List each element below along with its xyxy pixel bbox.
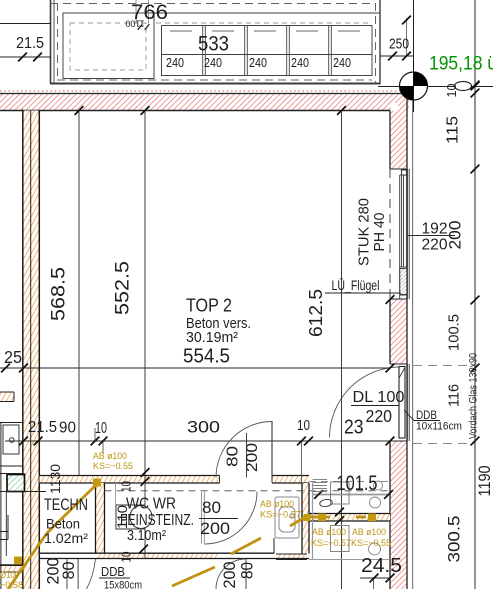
pipe niche diagonal xyxy=(231,538,261,554)
wire red dotted insulation line xyxy=(0,90,407,92)
svg-text:1130: 1130 xyxy=(48,464,63,494)
svg-text:533: 533 xyxy=(198,33,229,56)
wire leader DDB xyxy=(404,410,440,421)
svg-text:195,18 ü: 195,18 ü xyxy=(429,54,493,75)
svg-text:240: 240 xyxy=(291,55,309,70)
svg-text:AB ø100: AB ø100 xyxy=(352,527,386,538)
window STUK 192/220 in right wall xyxy=(390,169,409,299)
wire left edge double line xyxy=(50,0,52,84)
wall C horizontal bathroom top xyxy=(40,476,310,484)
dim line 24.5 xyxy=(360,577,390,579)
dim line 568.5 vertical xyxy=(78,111,80,476)
wire dashed parapet line across band xyxy=(156,22,372,24)
svg-text:101.5: 101.5 xyxy=(337,472,378,495)
wire bottom edge xyxy=(50,83,381,85)
wire gray line below wallE right xyxy=(309,559,390,561)
svg-text:552.5: 552.5 xyxy=(113,261,134,315)
svg-text:3.10m²: 3.10m² xyxy=(127,528,166,544)
dim line right column xyxy=(474,0,476,589)
svg-text:FEINSTEINZ.: FEINSTEINZ. xyxy=(120,512,194,529)
wire dim boundary lines 766 xyxy=(135,0,137,24)
svg-text:10: 10 xyxy=(444,84,459,98)
dim line 21.5 xyxy=(0,56,51,58)
dim line 192/220 leader xyxy=(407,235,455,237)
dim line 250 xyxy=(380,55,414,57)
svg-text:80: 80 xyxy=(225,446,242,467)
wall stub B2 bottom left xyxy=(0,566,23,573)
dim line 101.5 xyxy=(312,494,390,496)
svg-text:10: 10 xyxy=(297,418,310,434)
dim ticks xyxy=(75,106,84,115)
wire cell top ticks xyxy=(170,30,360,32)
svg-text:TOP 2: TOP 2 xyxy=(186,295,232,316)
svg-text:100.5: 100.5 xyxy=(446,314,463,351)
wire dashed DDB projection lines xyxy=(413,365,471,367)
svg-text:300: 300 xyxy=(187,418,220,437)
svg-text:10: 10 xyxy=(95,420,107,437)
svg-text:21.5: 21.5 xyxy=(28,419,57,436)
wire bottom-middle door lines xyxy=(245,559,247,589)
door DL100 leaf xyxy=(399,367,405,439)
wall exterior top band xyxy=(0,94,409,111)
svg-text:WC WR: WC WR xyxy=(126,496,176,513)
wire line y23.5 xyxy=(0,23,51,25)
svg-text:25: 25 xyxy=(4,347,22,367)
dim chain horizontal y441 xyxy=(5,440,390,442)
svg-text:90: 90 xyxy=(59,420,76,437)
svg-text:TECHN: TECHN xyxy=(44,496,88,514)
pipe basin to wall xyxy=(290,517,330,526)
svg-text:PH 40: PH 40 xyxy=(371,213,388,252)
wire dashed partition y491 xyxy=(105,490,391,492)
pipe long diagonal left xyxy=(8,484,97,589)
wire reference line right xyxy=(413,0,415,87)
svg-text:300.5: 300.5 xyxy=(445,516,464,563)
svg-text:200: 200 xyxy=(244,443,261,472)
node shaft box lower xyxy=(331,526,350,552)
door bottom-middle arc xyxy=(216,559,246,589)
door DL100 + DDB window in right wall xyxy=(330,364,441,441)
svg-text:10: 10 xyxy=(120,481,134,492)
svg-text:KS=−0.57: KS=−0.57 xyxy=(260,510,301,521)
wire dashed opening 101.5 xyxy=(309,481,389,483)
node pipe circles xyxy=(374,481,383,490)
svg-text:240: 240 xyxy=(204,55,222,70)
svg-text:10: 10 xyxy=(120,551,134,562)
wall E horizontal bathroom bottom xyxy=(40,553,310,559)
wire right edge xyxy=(379,0,381,84)
pipe WC bottom xyxy=(172,567,215,586)
door DL100 swing arc xyxy=(330,367,401,438)
svg-text:240: 240 xyxy=(166,55,184,70)
svg-text:220: 220 xyxy=(422,237,448,254)
node shaft box upper xyxy=(331,482,350,504)
door TOP2->bath arc xyxy=(216,422,272,478)
svg-text:AB ø100: AB ø100 xyxy=(260,499,294,510)
svg-text:200: 200 xyxy=(221,562,239,589)
node level ellipse xyxy=(455,82,472,91)
wire crosshair horizontal xyxy=(378,86,493,88)
svg-text:1190: 1190 xyxy=(475,466,493,497)
node green shaft square xyxy=(7,475,25,492)
svg-text:AB ø100: AB ø100 xyxy=(312,527,346,538)
svg-text:1.02m²: 1.02m² xyxy=(44,530,88,546)
node washbasin left xyxy=(3,425,19,454)
svg-text:80: 80 xyxy=(60,562,78,580)
wire 80/200 fraction bar rotated xyxy=(246,433,248,478)
svg-text:21.5: 21.5 xyxy=(16,35,44,52)
wall exterior right: upper block xyxy=(390,87,413,589)
wire niche lines xyxy=(0,422,23,424)
pipe dash in wallF xyxy=(356,516,366,519)
wall D vertical right of niche xyxy=(302,483,309,554)
svg-text:1100: 1100 xyxy=(125,19,144,29)
node toilet WC xyxy=(116,505,145,529)
node window band xyxy=(162,26,373,76)
svg-text:STUK 280: STUK 280 xyxy=(356,198,373,266)
svg-text:LÜ_Flügel: LÜ_Flügel xyxy=(332,278,380,293)
svg-text:612.5: 612.5 xyxy=(306,289,326,337)
svg-text:200: 200 xyxy=(446,221,465,250)
svg-text:568.5: 568.5 xyxy=(49,267,70,321)
svg-text:554.5: 554.5 xyxy=(183,345,230,368)
dim line 552.5 vertical xyxy=(144,111,146,559)
node radiator rungs xyxy=(313,480,328,492)
svg-text:115: 115 xyxy=(445,116,462,144)
svg-text:80: 80 xyxy=(239,562,257,579)
svg-text:KS=−0.57: KS=−0.57 xyxy=(311,538,351,549)
wall F horizontal right shaft xyxy=(309,514,390,522)
wire extension lines xyxy=(94,428,96,441)
node washbasin niche xyxy=(275,497,299,538)
svg-text:80: 80 xyxy=(202,499,221,517)
svg-text:−0,58: −0,58 xyxy=(0,580,23,589)
node left panel xyxy=(63,13,154,79)
wire inner top line xyxy=(63,12,380,14)
wire subroom left edge xyxy=(312,483,314,559)
svg-text:240: 240 xyxy=(249,55,267,70)
svg-text:10x116cm: 10x116cm xyxy=(416,421,462,433)
wall A vertical left xyxy=(23,110,40,589)
svg-text:250: 250 xyxy=(389,37,409,53)
wire mullions xyxy=(203,26,332,76)
label 240 x5 xyxy=(166,55,351,70)
dim line 612.5 vertical xyxy=(341,111,343,589)
svg-text:DDB: DDB xyxy=(101,565,125,579)
svg-text:DL 100: DL 100 xyxy=(353,389,405,406)
svg-text:240: 240 xyxy=(333,55,351,70)
wall stub B left xyxy=(0,392,14,402)
door shower leaf xyxy=(201,492,203,544)
door shower arc xyxy=(205,492,258,544)
svg-text:200: 200 xyxy=(200,520,230,538)
svg-text:KS=−0.55: KS=−0.55 xyxy=(93,461,133,472)
door bottom-left leaf curve xyxy=(87,559,96,589)
svg-text:220: 220 xyxy=(366,406,393,426)
svg-text:192: 192 xyxy=(422,221,448,238)
svg-text:23: 23 xyxy=(344,416,364,439)
svg-text:Vordach Glas 130x90: Vordach Glas 130x90 xyxy=(468,353,480,439)
svg-text:24.5: 24.5 xyxy=(361,554,402,577)
wire left boundary xyxy=(0,423,2,589)
wire dashed outline above xyxy=(50,3,376,83)
svg-text:116: 116 xyxy=(446,384,463,407)
dim line 554.5 horizontal xyxy=(0,367,390,369)
wall 2 vertical TECHN/WC xyxy=(96,483,105,553)
wire niche edge xyxy=(273,538,275,554)
svg-text:15x80cm: 15x80cm xyxy=(104,580,142,589)
svg-text:KS=−0,55: KS=−0,55 xyxy=(351,538,391,549)
door TOP2->bath leaf xyxy=(271,421,273,478)
node gold square markers xyxy=(14,479,376,565)
